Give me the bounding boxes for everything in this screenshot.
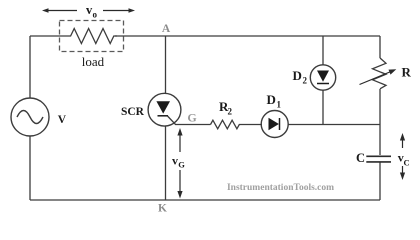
svg-text:D: D xyxy=(293,68,302,83)
AC source V xyxy=(11,98,49,136)
svg-text:K: K xyxy=(158,203,167,215)
diode D1 xyxy=(261,111,288,138)
resistor R2 xyxy=(211,120,263,129)
svg-text:A: A xyxy=(162,23,171,35)
svg-text:C: C xyxy=(356,151,365,165)
svg-text:D: D xyxy=(267,92,276,107)
svg-text:SCR: SCR xyxy=(121,106,145,118)
wire right rail xyxy=(379,36,381,200)
svg-text:InstrumentationTools.com: InstrumentationTools.com xyxy=(227,183,334,193)
rheostat R xyxy=(360,58,397,89)
svg-text:2: 2 xyxy=(228,107,233,117)
svg-text:2: 2 xyxy=(303,76,308,86)
label v_G xyxy=(172,153,185,169)
wire top rail xyxy=(30,35,380,37)
svg-text:G: G xyxy=(178,159,185,169)
svg-text:G: G xyxy=(187,111,196,125)
measurement arrow v_o xyxy=(42,8,135,12)
wire bottom rail xyxy=(30,199,380,201)
svg-text:R: R xyxy=(402,64,412,79)
measurement arrow v_C xyxy=(400,133,405,180)
SCR U1 xyxy=(148,93,210,126)
svg-text:o: o xyxy=(93,9,98,19)
svg-text:load: load xyxy=(82,54,105,69)
label R2 xyxy=(219,99,233,117)
svg-text:1: 1 xyxy=(277,100,282,110)
label D2 xyxy=(293,68,308,86)
svg-text:v: v xyxy=(172,153,178,167)
wire D2 branch xyxy=(322,36,324,125)
measurement arrow v_G xyxy=(177,128,182,199)
label v_o xyxy=(86,3,98,20)
wire D1 to right rail xyxy=(288,124,380,126)
resistor load xyxy=(67,29,117,44)
label D1 xyxy=(267,92,282,110)
label v_C xyxy=(398,150,410,167)
wire left rail xyxy=(29,36,31,200)
svg-text:C: C xyxy=(404,157,410,167)
svg-text:V: V xyxy=(58,114,67,126)
diode D2 xyxy=(310,65,335,90)
load dashed box xyxy=(60,21,124,52)
wire SCR branch xyxy=(165,36,167,200)
capacitor C xyxy=(366,156,391,162)
